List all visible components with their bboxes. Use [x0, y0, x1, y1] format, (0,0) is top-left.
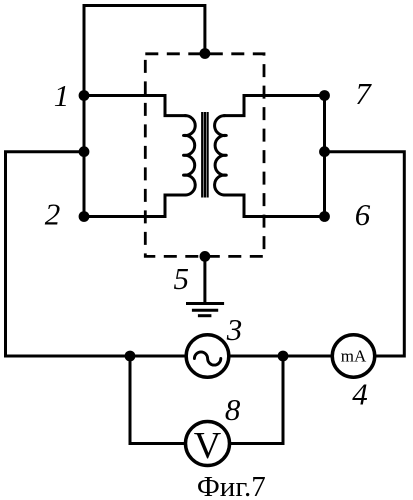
svg-text:6: 6	[355, 197, 371, 232]
svg-text:3: 3	[226, 312, 243, 347]
svg-text:1: 1	[54, 78, 70, 113]
svg-text:V: V	[194, 425, 222, 467]
svg-text:mA: mA	[341, 347, 367, 366]
svg-text:7: 7	[355, 76, 372, 111]
svg-text:5: 5	[173, 261, 189, 296]
svg-text:2: 2	[45, 197, 61, 232]
svg-text:Фиг.7: Фиг.7	[197, 471, 266, 500]
svg-text:4: 4	[352, 377, 368, 412]
svg-text:8: 8	[225, 392, 241, 427]
